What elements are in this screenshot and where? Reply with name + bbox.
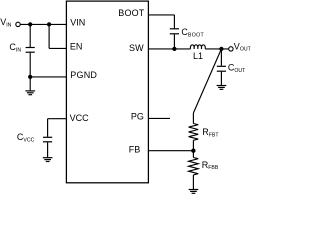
wire VOUT node down to COUT bbox=[220, 49, 222, 66]
wire PGND pin to ground column bbox=[30, 76, 66, 78]
svg-text:PGND: PGND bbox=[70, 70, 97, 80]
resistor RFBT bbox=[189, 124, 199, 141]
wire FB pin to divider bbox=[148, 150, 193, 152]
wire VCC down to CVCC bbox=[47, 119, 49, 137]
wire EN tap down bbox=[48, 24, 50, 48]
wire PG stub bbox=[148, 117, 170, 119]
wire BOOT pin out bbox=[148, 14, 174, 16]
junction CBOOT tap on SW rail bbox=[172, 47, 176, 51]
svg-text:VIN: VIN bbox=[70, 17, 85, 27]
node VOUT output terminal bbox=[229, 47, 233, 51]
wire BOOT down to CBOOT bbox=[173, 15, 175, 28]
junction FB node bbox=[191, 149, 195, 153]
ground below COUT bbox=[217, 86, 227, 90]
ground below CVCC bbox=[43, 158, 53, 162]
wire COUT bottom to ground bbox=[220, 72, 222, 85]
svg-text:BOOT: BOOT bbox=[118, 8, 144, 18]
wire CBOOT bottom to SW rail bbox=[173, 34, 175, 49]
junction PGND rail bbox=[28, 75, 32, 79]
capacitor CIN bbox=[26, 48, 35, 53]
node VIN input terminal bbox=[16, 22, 20, 26]
wire CIN bottom to PGND rail bbox=[29, 53, 31, 77]
svg-text:PG: PG bbox=[131, 112, 144, 122]
svg-text:VCC: VCC bbox=[70, 113, 90, 123]
junction VOUT node bbox=[219, 47, 223, 51]
ground below CIN bbox=[25, 91, 35, 95]
op-amp U1 regulator IC body bbox=[66, 1, 148, 183]
junction CIN tap on VIN rail bbox=[28, 22, 32, 26]
svg-text:SW: SW bbox=[129, 43, 144, 53]
wire into EN pin bbox=[49, 47, 66, 49]
wire VIN terminal to VIN pin bbox=[20, 23, 66, 25]
ground below RFBB bbox=[189, 190, 199, 194]
resistor RFBB bbox=[189, 158, 199, 175]
junction EN tap on VIN rail bbox=[47, 22, 51, 26]
wire feedback vertical to RFBT bbox=[192, 113, 194, 124]
capacitor CVCC bbox=[43, 137, 52, 142]
capacitor COUT bbox=[217, 66, 226, 71]
wire FB node to RFBB bbox=[192, 151, 194, 158]
wire CVCC bottom to ground bbox=[47, 142, 49, 157]
inductor L1 bbox=[190, 45, 205, 49]
svg-text:FB: FB bbox=[129, 144, 141, 154]
svg-text:EN: EN bbox=[70, 42, 83, 52]
wire RFBB to ground bbox=[192, 175, 194, 189]
wire VIN rail down to CIN bbox=[29, 24, 31, 47]
wire RFBT to FB node bbox=[192, 140, 194, 150]
wire down to input ground bbox=[29, 77, 31, 91]
wire SW pin to inductor bbox=[148, 48, 190, 50]
wire inductor to VOUT terminal bbox=[205, 48, 228, 50]
wire VCC pin out bbox=[48, 118, 67, 120]
wire feedback diagonal from VOUT node bbox=[193, 49, 221, 113]
capacitor CBOOT bbox=[170, 29, 179, 34]
svg-text:L1: L1 bbox=[193, 51, 203, 61]
